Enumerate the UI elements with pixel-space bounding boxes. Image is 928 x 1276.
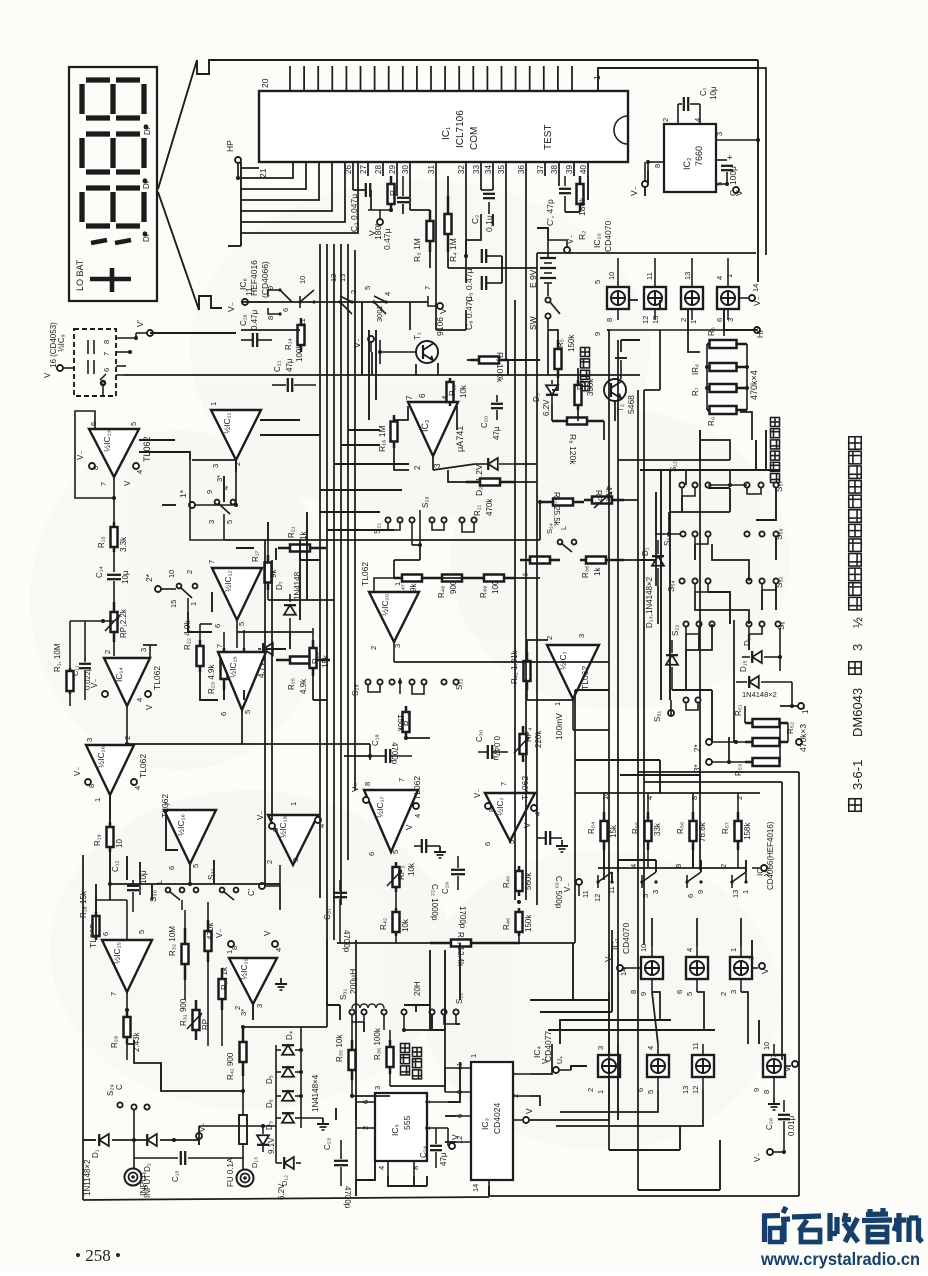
capacitor C20 47u (496, 395, 498, 402)
resistor R14 100k (298, 318, 305, 352)
wire (724, 329, 757, 331)
wire (162, 504, 176, 506)
xor U7c (641, 957, 663, 979)
svg-text:6: 6 (367, 852, 376, 856)
svg-text:DM6043: DM6043 (850, 688, 865, 737)
terminal V+ xor row b2 (752, 967, 758, 969)
wire (352, 1095, 390, 1097)
bus wire (429, 950, 431, 1030)
wire (406, 737, 430, 739)
wire (711, 690, 713, 742)
wire (620, 340, 622, 352)
decimal point DP1 (144, 125, 149, 130)
wire (520, 942, 575, 944)
svg-text:R₃ 1M: R₃ 1M (412, 238, 422, 262)
wire (628, 299, 638, 301)
svg-text:10: 10 (762, 1042, 771, 1050)
wire (618, 459, 730, 461)
svg-text:6: 6 (101, 932, 110, 936)
svg-text:28: 28 (374, 165, 383, 174)
wire (488, 1186, 490, 1196)
svg-text:34: 34 (484, 165, 493, 174)
svg-text:RP₃: RP₃ (397, 866, 406, 880)
svg-text:1N4148×4: 1N4148×4 (311, 1074, 320, 1112)
wire (552, 378, 558, 390)
wire (617, 1044, 619, 1120)
terminal V- near T1 (368, 336, 374, 342)
terminal V- row c (553, 1067, 559, 1073)
svg-text:R₄ 1M: R₄ 1M (448, 238, 458, 262)
bus wire (669, 470, 671, 700)
terminal 1* right (798, 703, 804, 709)
U15b out (241, 710, 243, 744)
wire (188, 612, 212, 632)
analog switch S6d (374, 296, 386, 302)
pot RP4 220k (514, 726, 529, 762)
zener D12 6.2V (284, 1157, 294, 1169)
terminal C' (left) (259, 883, 265, 889)
U19 gnd (275, 978, 287, 990)
svg-text:HP: HP (756, 327, 765, 338)
svg-text:4: 4 (377, 1166, 386, 1170)
bus wire (637, 390, 639, 1190)
svg-text:33k: 33k (653, 822, 662, 836)
svg-text:IR₆: IR₆ (691, 364, 700, 375)
svg-text:9106: 9106 (435, 317, 445, 336)
wire (110, 883, 265, 885)
watermark logo 矿石收音机 (762, 1207, 922, 1242)
svg-text:4: 4 (715, 276, 724, 280)
wire (692, 850, 694, 868)
bus wire (333, 244, 335, 940)
wire (426, 1176, 428, 1186)
svg-text:R₁, 10M: R₁, 10M (53, 643, 62, 672)
capacitor C14 10u (113, 552, 115, 572)
wire (266, 648, 286, 650)
svg-text:V₋: V₋ (76, 450, 85, 460)
xor U7d (686, 957, 708, 979)
wire (761, 590, 763, 610)
svg-text:R₇: R₇ (691, 387, 700, 396)
op-amp U15b TL062 (218, 652, 266, 710)
svg-text:4: 4 (221, 486, 230, 490)
wire (729, 488, 731, 512)
svg-text:7: 7 (109, 992, 118, 996)
svg-text:9k: 9k (409, 583, 418, 592)
wire (659, 330, 661, 390)
resistor R45 560k (516, 866, 523, 896)
wire (235, 460, 237, 472)
wire (608, 992, 610, 1055)
terminal V+ (battery) (564, 247, 570, 253)
wire right rail b (758, 68, 766, 255)
svg-text:100: 100 (491, 580, 500, 594)
inductor 200uH (352, 1004, 384, 1008)
wire (697, 992, 704, 1030)
svg-text:TL062: TL062 (412, 776, 422, 800)
IC5 555 body (375, 1093, 427, 1161)
svg-text:D₁₄: D₁₄ (743, 634, 752, 646)
svg-text:11: 11 (245, 287, 254, 296)
svg-text:RP₂: RP₂ (594, 490, 603, 504)
svg-text:2: 2 (679, 318, 688, 322)
svg-text:INPUT: INPUT (138, 1171, 148, 1197)
svg-text:9: 9 (752, 1088, 761, 1092)
svg-text:1: 1 (689, 320, 698, 324)
svg-text:6: 6 (483, 842, 492, 846)
terminal 3* right (706, 759, 712, 765)
terminal V+ ladder (752, 867, 760, 869)
wire (644, 781, 782, 783)
wire (652, 992, 658, 1044)
svg-text:30: 30 (401, 165, 410, 174)
wire (150, 332, 236, 334)
resistor R6 330k (575, 380, 582, 410)
svg-text:DP: DP (143, 124, 152, 135)
svg-text:C₁₄: C₁₄ (95, 566, 104, 578)
svg-text:6.2V: 6.2V (542, 399, 551, 416)
wire (445, 1141, 456, 1143)
resistor R57 158k (735, 812, 742, 850)
svg-text:8: 8 (605, 318, 614, 322)
svg-text:ICL7106: ICL7106 (455, 110, 466, 148)
wire (756, 488, 776, 520)
capacitor C8 100u (716, 159, 727, 161)
wire (611, 872, 613, 882)
svg-text:4: 4 (274, 948, 283, 952)
fan-out upper edge (158, 60, 758, 189)
svg-text:5: 5 (129, 422, 138, 426)
bus wire (643, 390, 645, 945)
svg-text:10: 10 (298, 276, 307, 284)
wire (433, 464, 475, 470)
wire T1 base (380, 351, 416, 353)
wire (527, 639, 548, 641)
xor U4b (647, 1055, 669, 1077)
wire (647, 170, 649, 184)
svg-text:V₋: V₋ (215, 928, 224, 938)
svg-text:15k: 15k (609, 824, 618, 838)
analog switch S6b (299, 296, 301, 308)
IC U1 notch (614, 116, 628, 144)
wire (655, 534, 657, 586)
wire (127, 1040, 134, 1044)
svg-text:8: 8 (91, 466, 100, 470)
bus wire (82, 855, 84, 1200)
svg-text:DP: DP (142, 178, 151, 189)
bus wire (459, 943, 461, 1000)
svg-text:3: 3 (255, 1004, 264, 1008)
svg-text:37: 37 (536, 165, 545, 174)
svg-text:CD4070: CD4070 (621, 923, 631, 954)
svg-text:C₃₀: C₃₀ (475, 730, 484, 742)
svg-text:C₃₃ 500p: C₃₃ 500p (554, 876, 563, 909)
svg-text:S₂₁: S₂₁ (373, 523, 382, 534)
U13 supply pins (89, 463, 95, 469)
svg-text:9: 9 (639, 992, 648, 996)
xor U7e (730, 957, 752, 979)
svg-text:CD4066(HEF4016): CD4066(HEF4016) (766, 821, 775, 890)
svg-text:R₃₈: R₃₈ (581, 566, 590, 578)
svg-text:6: 6 (213, 624, 222, 628)
svg-text:7: 7 (163, 802, 172, 806)
switch row S58 (680, 531, 710, 536)
wire (466, 214, 481, 240)
svg-text:D₆: D₆ (265, 1099, 274, 1108)
svg-text:27: 27 (359, 165, 368, 174)
IC5 pin stubs (356, 1101, 375, 1103)
wire (603, 850, 605, 868)
svg-text:11: 11 (691, 1042, 700, 1050)
resistor R20 15k (310, 640, 317, 676)
svg-text:5: 5 (137, 930, 146, 934)
xor U4c (692, 1055, 714, 1077)
terminal V+ (pin27 net) (368, 209, 391, 211)
wire (560, 1090, 658, 1112)
wire V+ rail top (598, 68, 758, 91)
svg-text:D₁₃,1N4148×2: D₁₃,1N4148×2 (645, 576, 654, 628)
svg-text:7: 7 (769, 1054, 778, 1058)
svg-text:2: 2 (103, 650, 112, 654)
LCD display module outline (69, 67, 157, 301)
svg-text:IC₃: IC₃ (480, 1118, 490, 1130)
wire (467, 359, 470, 361)
svg-text:7: 7 (102, 352, 111, 356)
wire (243, 690, 245, 700)
svg-text:RP: RP (201, 1019, 210, 1030)
svg-text:R₄₆: R₄₆ (502, 918, 511, 930)
svg-text:150k: 150k (567, 334, 576, 352)
resistor R36 100k (387, 1040, 394, 1074)
wire (139, 862, 141, 880)
wire (699, 430, 701, 460)
svg-text:4: 4 (693, 118, 702, 122)
svg-text:1: 1 (553, 702, 562, 706)
wire U13 out down (113, 498, 115, 522)
wire (617, 860, 619, 872)
U19 supply (228, 941, 234, 947)
svg-text:0.47μ: 0.47μ (250, 309, 259, 330)
wire (320, 511, 380, 513)
wire (719, 1140, 721, 1190)
svg-text:R₄₅: R₄₅ (502, 876, 511, 888)
svg-text:3: 3 (211, 464, 220, 468)
svg-text:V: V (123, 480, 132, 486)
svg-text:3: 3 (433, 463, 442, 468)
wire (95, 912, 97, 940)
capacitor C13 10u (139, 880, 141, 895)
resistor R56 76.8k (690, 812, 697, 850)
svg-text:6: 6 (686, 894, 695, 898)
wire (669, 511, 730, 513)
U7b supply (485, 803, 491, 809)
svg-text:R₂₀: R₂₀ (311, 652, 320, 664)
svg-text:S₅₄: S₅₄ (667, 580, 676, 592)
bus wire (264, 540, 266, 886)
svg-text:10: 10 (115, 839, 124, 848)
svg-text:5: 5 (243, 710, 252, 714)
wire (573, 729, 609, 731)
svg-text:9.1V: 9.1V (267, 1137, 276, 1154)
wire (355, 1180, 357, 1196)
wire (139, 452, 190, 460)
svg-text:½IC₁₆: ½IC₁₆ (96, 746, 106, 768)
wire (565, 211, 580, 213)
IC3 pin stubs (445, 1067, 471, 1069)
wire (695, 592, 749, 624)
wire (456, 406, 458, 430)
svg-text:3: 3 (139, 648, 148, 652)
svg-text:158k: 158k (743, 822, 752, 840)
svg-text:D₄: D₄ (285, 1031, 294, 1040)
wire (659, 300, 661, 310)
analog switch S8a (597, 875, 599, 888)
svg-text:3*: 3* (215, 475, 224, 482)
bus wire (368, 330, 370, 420)
svg-text:R₂₂ 25.5k: R₂₂ 25.5k (552, 492, 561, 527)
svg-text:2: 2 (233, 462, 242, 466)
wire (527, 699, 573, 701)
svg-text:V: V (263, 930, 272, 936)
wire (404, 1030, 445, 1068)
bus wire (536, 253, 538, 905)
wire (723, 310, 725, 330)
svg-text:100mV: 100mV (554, 713, 564, 740)
switch S30 contacts (166, 888, 171, 893)
wire (699, 775, 701, 793)
diode D2 input (147, 1134, 157, 1146)
svg-text:8: 8 (363, 782, 372, 786)
wire (429, 252, 431, 268)
svg-text:40: 40 (579, 165, 588, 174)
svg-text:8: 8 (487, 808, 496, 812)
capacitor C16 0.47u (253, 333, 257, 347)
svg-text:4: 4 (133, 786, 142, 790)
capacitor C24 47u (447, 1128, 449, 1142)
svg-text:2: 2 (719, 992, 728, 996)
terminal V+ row c (785, 1065, 791, 1067)
wire (412, 544, 420, 546)
svg-text:D₁₃: D₁₃ (250, 1157, 259, 1168)
svg-text:V₋: V₋ (226, 301, 236, 312)
wire R29 to S29 (134, 1040, 243, 1091)
svg-text:TL062: TL062 (138, 754, 148, 778)
wire (393, 560, 395, 578)
svg-text:V₋: V₋ (563, 882, 572, 892)
svg-text:V: V (405, 824, 414, 830)
resistor R43 12.4k (430, 940, 520, 947)
svg-text:6: 6 (675, 990, 684, 994)
svg-text:9: 9 (696, 890, 705, 894)
svg-text:1700p: 1700p (458, 906, 467, 929)
svg-text:8: 8 (653, 164, 662, 168)
svg-text:S₂₆: S₂₆ (421, 496, 430, 508)
decimal point DP2 (143, 179, 148, 184)
svg-text:R₂₅: R₂₅ (287, 678, 296, 690)
svg-text:555: 555 (402, 1116, 412, 1130)
wire (698, 634, 700, 650)
wire (415, 1005, 417, 1012)
wire (758, 1020, 760, 1044)
svg-text:V₋: V₋ (73, 766, 82, 776)
svg-text:470k×4: 470k×4 (749, 370, 759, 400)
svg-text:V: V (450, 1134, 460, 1140)
resistor R17 9k (265, 555, 272, 590)
svg-text:29: 29 (388, 165, 397, 174)
bus wire (617, 340, 619, 1044)
wire (655, 860, 657, 872)
svg-text:R₅₄: R₅₄ (587, 822, 596, 834)
resistor R44 150k (403, 706, 410, 738)
capacitor C28 0.01u (783, 1100, 785, 1112)
wire (437, 363, 439, 375)
svg-text:C₂₄: C₂₄ (419, 1146, 428, 1158)
wire (548, 1029, 715, 1031)
svg-text:15: 15 (169, 600, 178, 608)
svg-text:470k: 470k (206, 922, 215, 940)
wire (685, 470, 687, 485)
decimal point DP3 (143, 232, 148, 237)
resistor R5 150k (555, 340, 562, 378)
svg-text:V: V (43, 372, 52, 378)
svg-text:14: 14 (751, 284, 760, 292)
op-amp U12 TL062 (212, 568, 262, 620)
op-amp U13 TL062 (89, 429, 139, 477)
resistor R46 150k (516, 908, 523, 936)
svg-text:3: 3 (373, 1086, 382, 1090)
resistor R22 4.9k (197, 640, 204, 672)
wire (198, 1126, 200, 1145)
svg-text:R₅₆: R₅₆ (676, 822, 685, 834)
resistor R3 1M (427, 210, 434, 252)
wire pin35 long (505, 176, 507, 360)
wire (127, 743, 370, 745)
svg-text:R₂: R₂ (577, 231, 587, 240)
svg-text:1k: 1k (593, 567, 602, 576)
svg-text:8: 8 (762, 1090, 771, 1094)
wire (339, 1005, 341, 1020)
input jack 1 (125, 1169, 142, 1186)
op-amp U18 TL062 (268, 815, 318, 865)
svg-text:R₅₁: R₅₁ (734, 704, 743, 716)
svg-text:C₁₅: C₁₅ (171, 1170, 180, 1182)
terminal V- (pin11) (242, 299, 248, 305)
capacitor C19 4700p (386, 749, 390, 763)
svg-text:4: 4 (135, 698, 144, 702)
svg-text:V: V (524, 1108, 534, 1114)
wire right rail a (757, 60, 759, 282)
resistor R16 1M (391, 415, 398, 448)
U11 feedback (190, 460, 224, 540)
gnd row c (768, 1098, 780, 1110)
svg-text:36: 36 (517, 165, 526, 174)
wire (409, 302, 411, 330)
svg-text:0.47μ: 0.47μ (382, 228, 392, 250)
svg-text:2: 2 (123, 736, 132, 740)
wire (740, 918, 742, 946)
wire (166, 810, 178, 850)
wire (326, 1005, 328, 1027)
capacitor C33 500p (546, 831, 550, 845)
bus wire (347, 244, 349, 860)
wire (390, 1086, 445, 1092)
wire (213, 860, 215, 884)
svg-text:9: 9 (593, 332, 602, 336)
wire (700, 860, 702, 872)
zener D13 9.1V (257, 1135, 269, 1145)
wire (712, 544, 749, 581)
svg-text:9: 9 (205, 490, 214, 494)
